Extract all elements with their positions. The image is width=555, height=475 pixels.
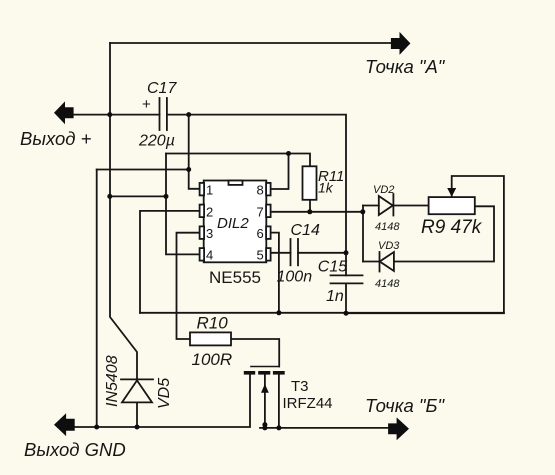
svg-text:6: 6 xyxy=(257,226,264,241)
svg-text:C14: C14 xyxy=(291,222,320,239)
svg-text:2: 2 xyxy=(206,204,213,219)
svg-text:NE555: NE555 xyxy=(209,268,261,287)
svg-text:T3: T3 xyxy=(291,378,309,395)
svg-text:1k: 1k xyxy=(318,180,334,196)
svg-text:3: 3 xyxy=(206,226,213,241)
svg-text:4148: 4148 xyxy=(375,278,400,290)
svg-text:1: 1 xyxy=(206,183,213,198)
svg-text:4148: 4148 xyxy=(375,221,400,233)
svg-text:R9 47k: R9 47k xyxy=(421,217,483,238)
svg-text:100R: 100R xyxy=(192,350,233,369)
svg-text:8: 8 xyxy=(257,183,264,198)
svg-text:5: 5 xyxy=(257,248,264,263)
svg-text:+: + xyxy=(142,96,151,113)
svg-text:VD2: VD2 xyxy=(373,184,394,196)
svg-text:220µ: 220µ xyxy=(138,133,175,150)
svg-text:7: 7 xyxy=(257,204,264,219)
svg-text:C17: C17 xyxy=(147,80,177,97)
svg-text:VD3: VD3 xyxy=(378,240,400,252)
svg-text:VD5: VD5 xyxy=(156,378,173,409)
svg-text:Точка "А": Точка "А" xyxy=(365,56,446,77)
svg-text:Выход +: Выход + xyxy=(20,128,92,149)
svg-text:DIL2: DIL2 xyxy=(217,215,249,232)
svg-text:4: 4 xyxy=(206,248,213,263)
svg-text:R10: R10 xyxy=(197,314,229,333)
svg-text:IRFZ44: IRFZ44 xyxy=(283,395,333,412)
svg-text:C15: C15 xyxy=(318,259,347,276)
svg-text:IN5408: IN5408 xyxy=(104,355,121,407)
svg-text:100n: 100n xyxy=(277,269,313,286)
svg-text:1n: 1n xyxy=(326,288,344,305)
svg-text:Точка "Б": Точка "Б" xyxy=(365,395,445,416)
svg-text:Выход GND: Выход GND xyxy=(24,439,126,460)
